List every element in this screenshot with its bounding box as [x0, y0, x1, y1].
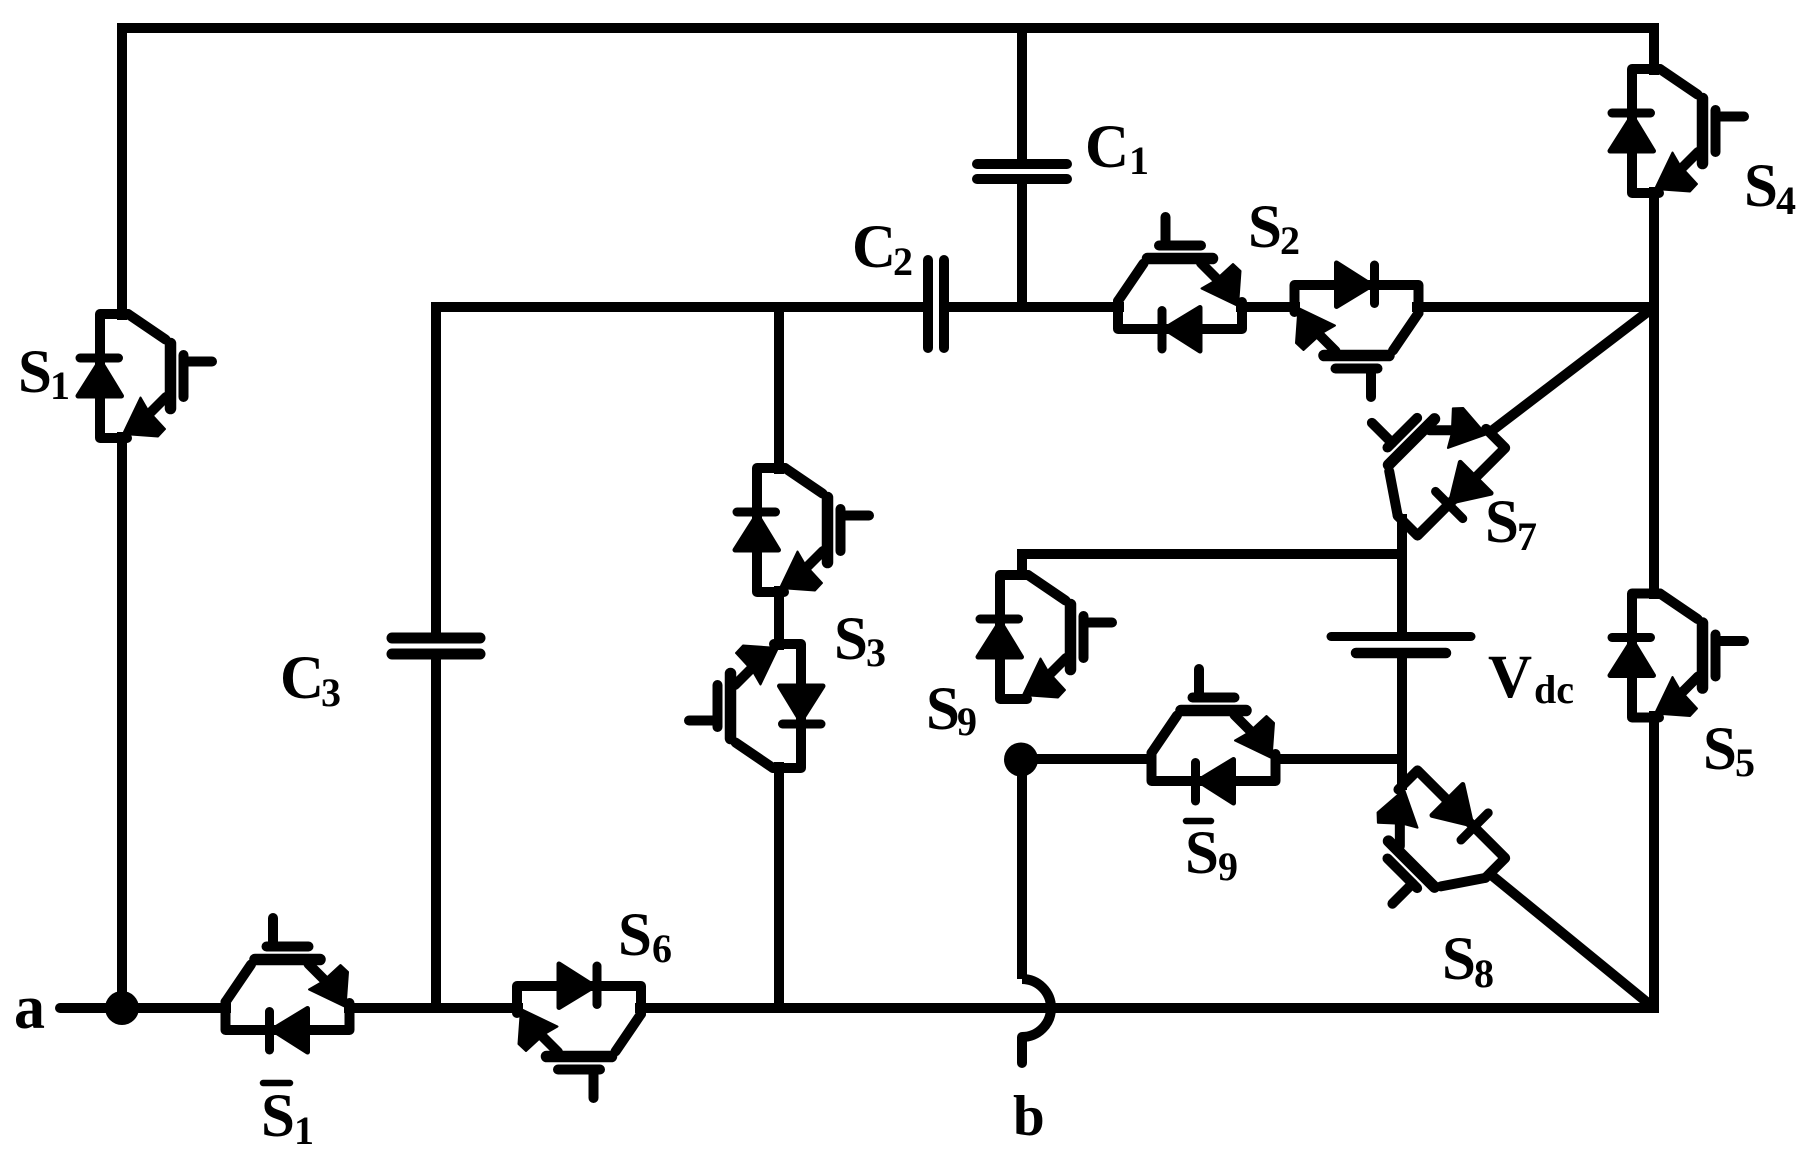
IGBT S1-bar: [226, 918, 350, 1052]
label S8: [1442, 926, 1494, 996]
wire C2 bus left: [436, 302, 924, 312]
label Vdc: [1488, 644, 1574, 712]
svg-text:1: 1: [50, 363, 70, 408]
label C2: [852, 214, 913, 284]
IGBT S2: [1118, 217, 1242, 351]
IGBT S3 upper: [735, 468, 869, 592]
wire S3 rail upper: [774, 302, 784, 474]
svg-text:S: S: [1744, 153, 1778, 220]
svg-text:C: C: [1085, 114, 1129, 181]
IGBT S6: [517, 964, 641, 1098]
svg-text:2: 2: [893, 239, 913, 284]
svg-text:2: 2: [1280, 218, 1300, 263]
wire S3 rail middle: [774, 586, 784, 650]
wire S2 complement to right rail: [1412, 302, 1659, 312]
svg-text:5: 5: [1735, 740, 1755, 785]
label S9-bar overline: [1186, 818, 1211, 825]
wire S2 to S2 complement link: [1236, 302, 1300, 312]
wire S3 rail lower: [774, 762, 784, 1013]
label S4: [1744, 153, 1796, 223]
wire mid-left rail lower: [431, 658, 441, 1013]
capacitor C2: [928, 260, 944, 348]
svg-text:S: S: [1703, 716, 1737, 783]
svg-text:6: 6: [652, 926, 672, 971]
wire Vdc rail lower: [1397, 652, 1407, 790]
svg-text:b: b: [1013, 1085, 1045, 1148]
svg-text:4: 4: [1776, 178, 1796, 223]
svg-text:S: S: [1442, 926, 1476, 993]
wire left rail lower: [117, 432, 127, 1008]
capacitor C3: [392, 638, 480, 654]
wire bottom bus segment 1: [122, 1003, 231, 1008]
wire mid-left rail upper: [431, 302, 441, 634]
label S3: [834, 606, 886, 675]
wire right rail middle: [1649, 187, 1659, 599]
IGBT S8: [1338, 755, 1520, 937]
wire S7 diagonal to junction: [1490, 307, 1654, 432]
svg-text:S: S: [618, 902, 652, 969]
wire node b drop: [1017, 753, 1027, 979]
svg-text:3: 3: [866, 630, 886, 675]
voltage source Vdc: [1331, 637, 1471, 654]
label S6: [618, 902, 672, 971]
svg-text:1: 1: [294, 1108, 314, 1153]
wire right rail upper: [1649, 23, 1659, 75]
junction node S9/b dot: [1004, 743, 1038, 777]
svg-text:S: S: [834, 606, 868, 673]
wire S7 drop to Vdc rail: [1397, 514, 1407, 636]
IGBT S3 lower: [689, 644, 823, 768]
label S2: [1248, 194, 1300, 263]
IGBT S1: [78, 314, 212, 438]
wire S9 top row: [1022, 554, 1402, 600]
wire S9-bar row left: [1030, 754, 1155, 764]
label C3: [280, 645, 341, 715]
svg-text:S: S: [261, 1083, 295, 1150]
wire bottom bus segment 2: [344, 1003, 523, 1013]
svg-text:V: V: [1488, 644, 1532, 711]
wire left rail upper: [117, 23, 127, 320]
wire top bus: [117, 23, 1659, 33]
wire node b hop over bus: [1022, 979, 1051, 1037]
wire right rail lower: [1649, 711, 1659, 1013]
wire node a stub: [60, 1003, 122, 1013]
wire S9-bar row right: [1273, 754, 1402, 764]
IGBT S7: [1338, 369, 1520, 551]
svg-text:8: 8: [1474, 951, 1494, 996]
svg-text:9: 9: [957, 699, 977, 744]
junction node a dot: [105, 991, 139, 1025]
wire bottom bus segment 3: [635, 1003, 1659, 1013]
IGBT S4: [1610, 69, 1744, 193]
svg-text:1: 1: [1129, 138, 1149, 183]
svg-text:S: S: [1185, 820, 1219, 887]
label S1-bar overline: [263, 1080, 290, 1087]
IGBT S9-bar: [1152, 669, 1276, 803]
svg-text:S: S: [926, 676, 960, 743]
capacitor C1: [977, 164, 1067, 179]
svg-text:C: C: [852, 214, 896, 281]
wire C1 drop upper: [1017, 28, 1027, 160]
label S9-bar: [1185, 820, 1238, 889]
svg-text:9: 9: [1218, 844, 1238, 889]
label S1: [18, 339, 70, 408]
svg-text:dc: dc: [1534, 667, 1574, 712]
wire S8 diagonal to corner: [1490, 874, 1654, 1008]
label S9: [926, 676, 977, 744]
label S1-bar: [261, 1083, 314, 1153]
svg-text:a: a: [14, 974, 45, 1042]
wire C1 drop lower: [1017, 183, 1027, 312]
label S5: [1703, 716, 1755, 785]
label S7: [1485, 489, 1537, 559]
svg-text:S: S: [1485, 489, 1519, 556]
svg-text:C: C: [280, 645, 324, 712]
wire node b tail: [1017, 1037, 1027, 1063]
svg-text:7: 7: [1517, 514, 1537, 559]
svg-text:S: S: [18, 339, 52, 406]
wire C2 bus right: [948, 302, 1124, 312]
IGBT S9: [978, 575, 1112, 699]
svg-text:3: 3: [321, 670, 341, 715]
svg-text:S: S: [1248, 194, 1282, 261]
IGBT S5: [1610, 594, 1744, 718]
label C1: [1085, 114, 1149, 183]
IGBT S2 complement: [1295, 263, 1419, 397]
